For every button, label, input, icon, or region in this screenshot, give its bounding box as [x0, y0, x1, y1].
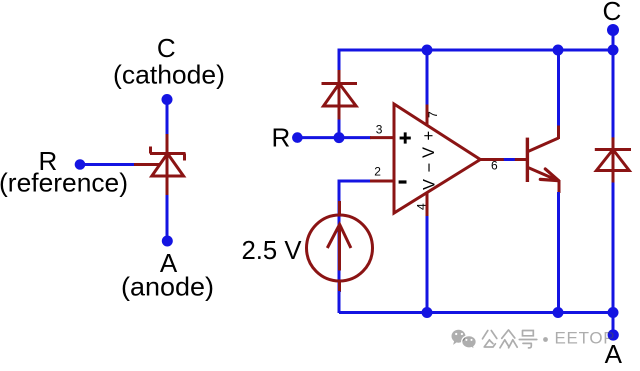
watermark separator dot — [543, 337, 548, 342]
wire top rail — [339, 49, 613, 52]
op-amp U1 — [370, 104, 505, 217]
svg-text:2.5 V: 2.5 V — [242, 235, 303, 265]
svg-text:(cathode): (cathode) — [113, 60, 225, 90]
wire — [612, 183, 615, 314]
wire — [338, 182, 341, 201]
junction — [334, 132, 345, 143]
label C (cathode) — [113, 33, 225, 90]
wire — [426, 50, 429, 105]
svg-text:6: 6 — [491, 158, 498, 172]
wire — [557, 192, 560, 313]
wire bottom rail — [339, 311, 613, 314]
voltage source V1 2.5V — [307, 201, 373, 292]
wire — [338, 291, 341, 313]
watermark char hao — [519, 331, 537, 348]
junction — [608, 307, 619, 318]
TL431 shunt regulator symbol U1 (left) — [133, 134, 186, 196]
wire — [426, 216, 429, 313]
svg-text:4: 4 — [415, 203, 429, 210]
wire — [297, 136, 371, 139]
transistor Q1 — [515, 125, 559, 194]
node R terminal dot — [292, 132, 303, 143]
watermark char zhong — [500, 330, 517, 348]
label R (reference) — [0, 146, 128, 198]
node C terminal dot (left symbol) — [162, 94, 173, 105]
junction — [608, 45, 619, 56]
node C terminal dot — [607, 24, 619, 36]
svg-text:EETOP: EETOP — [555, 329, 616, 348]
wire — [612, 30, 615, 50]
wire — [80, 163, 134, 166]
diode D2 — [595, 137, 631, 183]
wire — [166, 100, 169, 135]
diode D1 — [322, 70, 358, 120]
wire — [338, 120, 341, 138]
svg-text:2: 2 — [374, 165, 381, 179]
svg-text:V+: V+ — [420, 124, 438, 158]
svg-text:(anode): (anode) — [121, 272, 214, 302]
svg-text:(reference): (reference) — [0, 168, 128, 198]
wire — [612, 50, 615, 138]
node A terminal dot (left symbol) — [162, 236, 173, 247]
svg-text:7: 7 — [426, 111, 440, 118]
junction — [553, 307, 564, 318]
node R terminal dot (left symbol) — [75, 159, 86, 170]
wire — [612, 313, 615, 336]
watermark wechat icon and text — [452, 330, 466, 345]
junction — [422, 307, 433, 318]
node A terminal dot — [608, 329, 619, 340]
junction — [553, 45, 564, 56]
svg-text:C: C — [157, 33, 176, 63]
wire — [557, 50, 560, 126]
op-amp plus input marker — [400, 132, 411, 143]
watermark char gong — [483, 331, 497, 348]
svg-text:C: C — [603, 0, 622, 26]
op-amp minus input marker — [399, 180, 407, 183]
wire — [338, 49, 341, 72]
wire — [504, 158, 516, 161]
label A (anode) — [121, 248, 214, 302]
svg-text:V−: V− — [420, 156, 438, 190]
svg-text:3: 3 — [376, 123, 383, 137]
svg-text:R: R — [272, 122, 291, 152]
wire — [339, 181, 371, 313]
junction — [422, 45, 433, 56]
wire — [166, 195, 169, 241]
